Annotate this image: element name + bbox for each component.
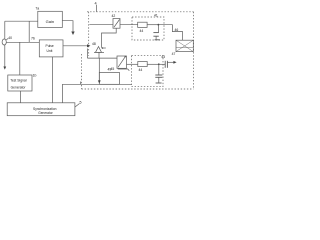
label tick 5a	[80, 82, 82, 85]
dashed enclosure 4	[82, 12, 194, 89]
label 5 leader	[75, 104, 80, 108]
wire mic to pulse unit	[6, 41, 39, 43]
svg-text:43: 43	[161, 55, 165, 59]
wire B main	[89, 24, 113, 26]
wire B to output	[158, 25, 182, 41]
wire	[147, 63, 159, 65]
wire vertical to control	[98, 58, 100, 81]
wire branch vertical	[28, 21, 30, 42]
node dot 48	[102, 47, 104, 49]
node J3	[158, 63, 160, 65]
svg-text:44: 44	[139, 68, 143, 72]
wire C lower	[127, 63, 138, 65]
wire to arrow	[167, 61, 173, 63]
wire B cont	[120, 24, 138, 26]
svg-text:5: 5	[80, 101, 82, 105]
svg-text:Generator: Generator	[11, 85, 27, 89]
svg-text:48: 48	[92, 42, 96, 46]
capacitor C1	[157, 25, 159, 33]
ground tick	[155, 39, 160, 41]
microphone 40	[2, 39, 6, 45]
label 4 leader	[96, 5, 98, 12]
arrowhead out	[173, 61, 176, 64]
bias wire	[102, 28, 117, 48]
svg-text:4: 4	[95, 2, 97, 6]
svg-text:Pulse: Pulse	[46, 44, 54, 48]
svg-text:46: 46	[175, 28, 179, 32]
dashed enclosure 43	[132, 55, 164, 86]
svg-text:Generator: Generator	[38, 111, 53, 115]
pulse unit block 7b	[39, 40, 63, 57]
svg-text:Unit: Unit	[47, 49, 53, 53]
svg-text:40: 40	[8, 36, 12, 40]
coupling capacitor	[164, 61, 166, 68]
svg-text:7b: 7b	[31, 36, 35, 40]
wire pulse to sync	[51, 57, 53, 103]
wire sync to right	[63, 84, 132, 103]
amplifier block 7a	[38, 11, 63, 27]
wire mic bottom	[4, 45, 6, 67]
wire	[147, 24, 158, 26]
ground tick 2	[156, 82, 162, 84]
wire generator to sync	[19, 91, 21, 103]
resistor 44 (lower)	[138, 62, 147, 67]
wire pulse output right	[63, 45, 87, 47]
arrowhead into wire	[98, 80, 101, 83]
control block 49	[99, 73, 119, 85]
wire middle horizontal	[87, 57, 117, 59]
test signal generator block 1b	[8, 75, 32, 91]
wire top horizontal	[5, 20, 38, 22]
variable element 45	[117, 56, 127, 68]
svg-text:47: 47	[172, 52, 176, 56]
svg-text:1b: 1b	[33, 73, 37, 77]
svg-text:7a: 7a	[35, 6, 39, 10]
receiver 47	[176, 40, 193, 51]
wire C to coupling	[159, 63, 165, 65]
node J2	[158, 24, 160, 26]
wire node to generator	[19, 42, 21, 75]
variable attenuator 42	[113, 19, 120, 29]
wire amp output	[63, 21, 74, 32]
svg-text:45: 45	[111, 67, 115, 71]
svg-text:Gain: Gain	[46, 19, 54, 24]
leader 49	[118, 69, 130, 71]
wire mic top	[4, 21, 6, 39]
synchronization generator block 5	[7, 103, 75, 116]
arrowhead amp output	[71, 32, 74, 36]
transducer symbol 48	[96, 47, 102, 53]
dashed enclosure 41	[132, 17, 164, 40]
capacitor C2	[158, 64, 160, 75]
arrowhead mic bottom	[3, 67, 6, 70]
resistor 44	[138, 22, 147, 27]
svg-text:Test Signal: Test Signal	[10, 79, 26, 83]
svg-text:42: 42	[112, 14, 116, 18]
svg-text:41: 41	[154, 13, 158, 17]
svg-text:44: 44	[140, 29, 144, 33]
